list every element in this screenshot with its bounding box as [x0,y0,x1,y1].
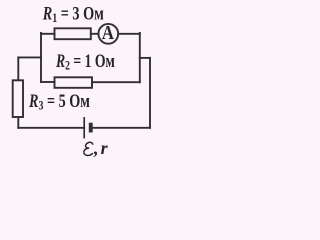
svg-text:R1 = 3 Ом: R1 = 3 Ом [42,2,104,25]
ammeter letter A [102,22,114,44]
wire node A to R2 [41,81,55,83]
wire right stub [140,57,150,59]
wire left vertical (node A) [40,33,42,82]
label EMF script E [84,142,93,155]
svg-text:A: A [102,22,114,44]
wire node A to R1 [41,33,55,35]
wire R1 to ammeter [91,33,99,35]
wire R3 bottom [17,117,19,128]
wire R3 top [17,57,19,80]
label R1 value [42,2,104,25]
resistor R1 [55,28,91,39]
svg-text:R3 = 5 Ом: R3 = 5 Ом [28,90,90,113]
wire right vertical (R1/R2 join) [139,33,141,82]
wire battery to bottom right [93,127,150,129]
battery EMF long plate [83,117,85,138]
wire R2 right to vertical [92,81,140,83]
svg-text:,r: ,r [93,138,108,158]
wire ammeter to right corner [118,33,140,35]
resistor R3 [13,80,23,117]
svg-text:R2 = 1 Ом: R2 = 1 Ом [55,51,115,73]
resistor R2 [55,77,93,88]
ammeter A circle [98,24,118,44]
label R2 value [55,51,115,73]
wire left stub to R3 [18,56,41,58]
battery EMF short thick plate [89,123,93,133]
wire right outer vertical [149,58,151,128]
label R3 value [28,90,90,113]
wire bottom left to battery [18,127,84,129]
